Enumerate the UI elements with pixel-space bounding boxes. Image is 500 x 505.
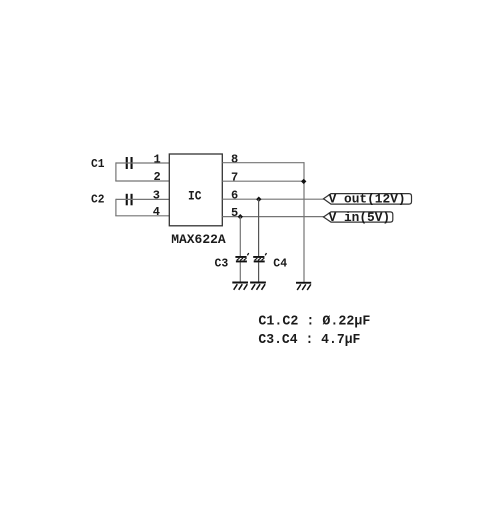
wire pin7 bbox=[222, 180, 304, 182]
svg-text:C3: C3 bbox=[215, 256, 229, 270]
capacitor C3 (polarized) bbox=[235, 253, 248, 262]
ground under C4 bbox=[250, 282, 266, 290]
svg-text:6: 6 bbox=[231, 189, 238, 203]
svg-text:3: 3 bbox=[153, 189, 160, 203]
svg-text:V out(12V): V out(12V) bbox=[329, 192, 406, 207]
svg-text:7: 7 bbox=[231, 170, 238, 184]
wire pin1 bbox=[116, 162, 169, 164]
svg-text:IC: IC bbox=[188, 190, 202, 204]
wire C3 vertical lower bbox=[239, 262, 241, 282]
wire C3 vertical upper bbox=[239, 217, 241, 257]
svg-text:8: 8 bbox=[231, 152, 238, 166]
wire pin6 bbox=[222, 198, 324, 200]
junction node pin5 net bbox=[238, 214, 243, 219]
ground right net bbox=[296, 282, 311, 290]
junction node pin7/pin8 net bbox=[301, 179, 306, 184]
svg-text:V in(5V): V in(5V) bbox=[329, 210, 391, 225]
op-amp IC U1 box bbox=[169, 154, 222, 226]
svg-text:C1: C1 bbox=[91, 157, 105, 171]
wire C2 left vertical bbox=[115, 199, 117, 216]
wire pin4 bbox=[115, 215, 169, 217]
svg-text:C2: C2 bbox=[91, 192, 105, 206]
wire C1 left vertical bbox=[115, 162, 117, 181]
capacitor C4 (polarized) bbox=[253, 253, 266, 262]
wire right vertical to ground bbox=[303, 162, 305, 282]
svg-text:C3.C4 : 4.7µF: C3.C4 : 4.7µF bbox=[258, 333, 360, 348]
wire pin2 bbox=[115, 180, 169, 182]
svg-text:C4: C4 bbox=[273, 256, 287, 270]
svg-text:MAX622A: MAX622A bbox=[171, 232, 226, 247]
wire pin5 bbox=[222, 216, 324, 218]
node V out flag bbox=[324, 192, 412, 207]
ground under C3 bbox=[232, 282, 248, 290]
wire pin3 bbox=[116, 198, 169, 200]
svg-text:1: 1 bbox=[154, 153, 161, 167]
svg-text:5: 5 bbox=[231, 206, 238, 220]
wire pin8 bbox=[222, 162, 304, 164]
capacitor C1 bbox=[126, 157, 133, 169]
svg-text:2: 2 bbox=[154, 170, 161, 184]
capacitor C2 bbox=[126, 194, 133, 206]
svg-text:4: 4 bbox=[153, 205, 160, 219]
junction node pin6 net bbox=[256, 197, 261, 202]
wire C4 vertical upper bbox=[258, 199, 260, 256]
svg-text:C1.C2 : Ø.22µF: C1.C2 : Ø.22µF bbox=[258, 315, 370, 330]
node V in flag bbox=[324, 210, 393, 225]
wire C4 vertical lower bbox=[258, 262, 260, 282]
